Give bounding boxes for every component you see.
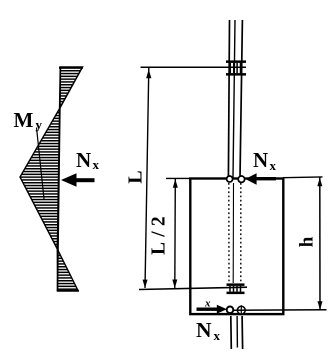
svg-text:h: h — [297, 236, 318, 247]
moment diagram top triangle — [59, 67, 83, 109]
force arrow N_x (left, pointing left) — [61, 173, 95, 186]
moment diagram bottom triangle — [57, 249, 79, 291]
svg-text:x: x — [214, 328, 221, 343]
top edge extension line (left, to L/2 dimension) — [166, 177, 191, 179]
svg-text:L: L — [125, 170, 147, 183]
moment diagram axis line — [58, 67, 61, 292]
top edge extension line (right, to h dimension) — [283, 176, 323, 179]
column hidden (dotted) segment inside plate — [229, 183, 241, 283]
svg-text:x: x — [93, 157, 100, 172]
top splice symbol — [226, 60, 246, 75]
svg-text:N: N — [76, 148, 91, 172]
column lower segment (three bars) — [231, 316, 243, 349]
dimension line L — [143, 68, 152, 288]
plate rectangle — [190, 179, 283, 315]
svg-text:x: x — [270, 158, 277, 173]
svg-text:N: N — [196, 318, 212, 342]
label M_y — [14, 108, 43, 132]
dimension line L/2 — [172, 179, 178, 288]
leader line from M_y label — [37, 128, 45, 200]
bottom extension line (column base level) — [139, 287, 247, 289]
svg-text:x: x — [204, 298, 211, 310]
svg-text:M: M — [14, 108, 34, 132]
L dimension extension line (top) — [141, 66, 247, 68]
moment diagram middle-left triangle — [20, 109, 60, 250]
bottom pin circles with axis cross — [227, 305, 246, 315]
svg-text:N: N — [253, 148, 268, 172]
dimension line h — [317, 177, 322, 310]
force arrow N_x (bottom, pointing right) — [197, 305, 228, 314]
label N_x (top right) — [253, 148, 277, 173]
label N_x (bottom) — [196, 318, 221, 343]
svg-text:L/2: L/2 — [149, 211, 170, 255]
force arrow N_x (top right, pointing left) — [245, 173, 276, 185]
label N_x (left) — [76, 148, 100, 172]
bottom extension line to h dimension (through pins) — [233, 309, 326, 311]
bottom splice symbol — [227, 283, 245, 294]
column upper segment (three bars) — [228, 20, 242, 178]
top pin circles — [227, 176, 245, 182]
